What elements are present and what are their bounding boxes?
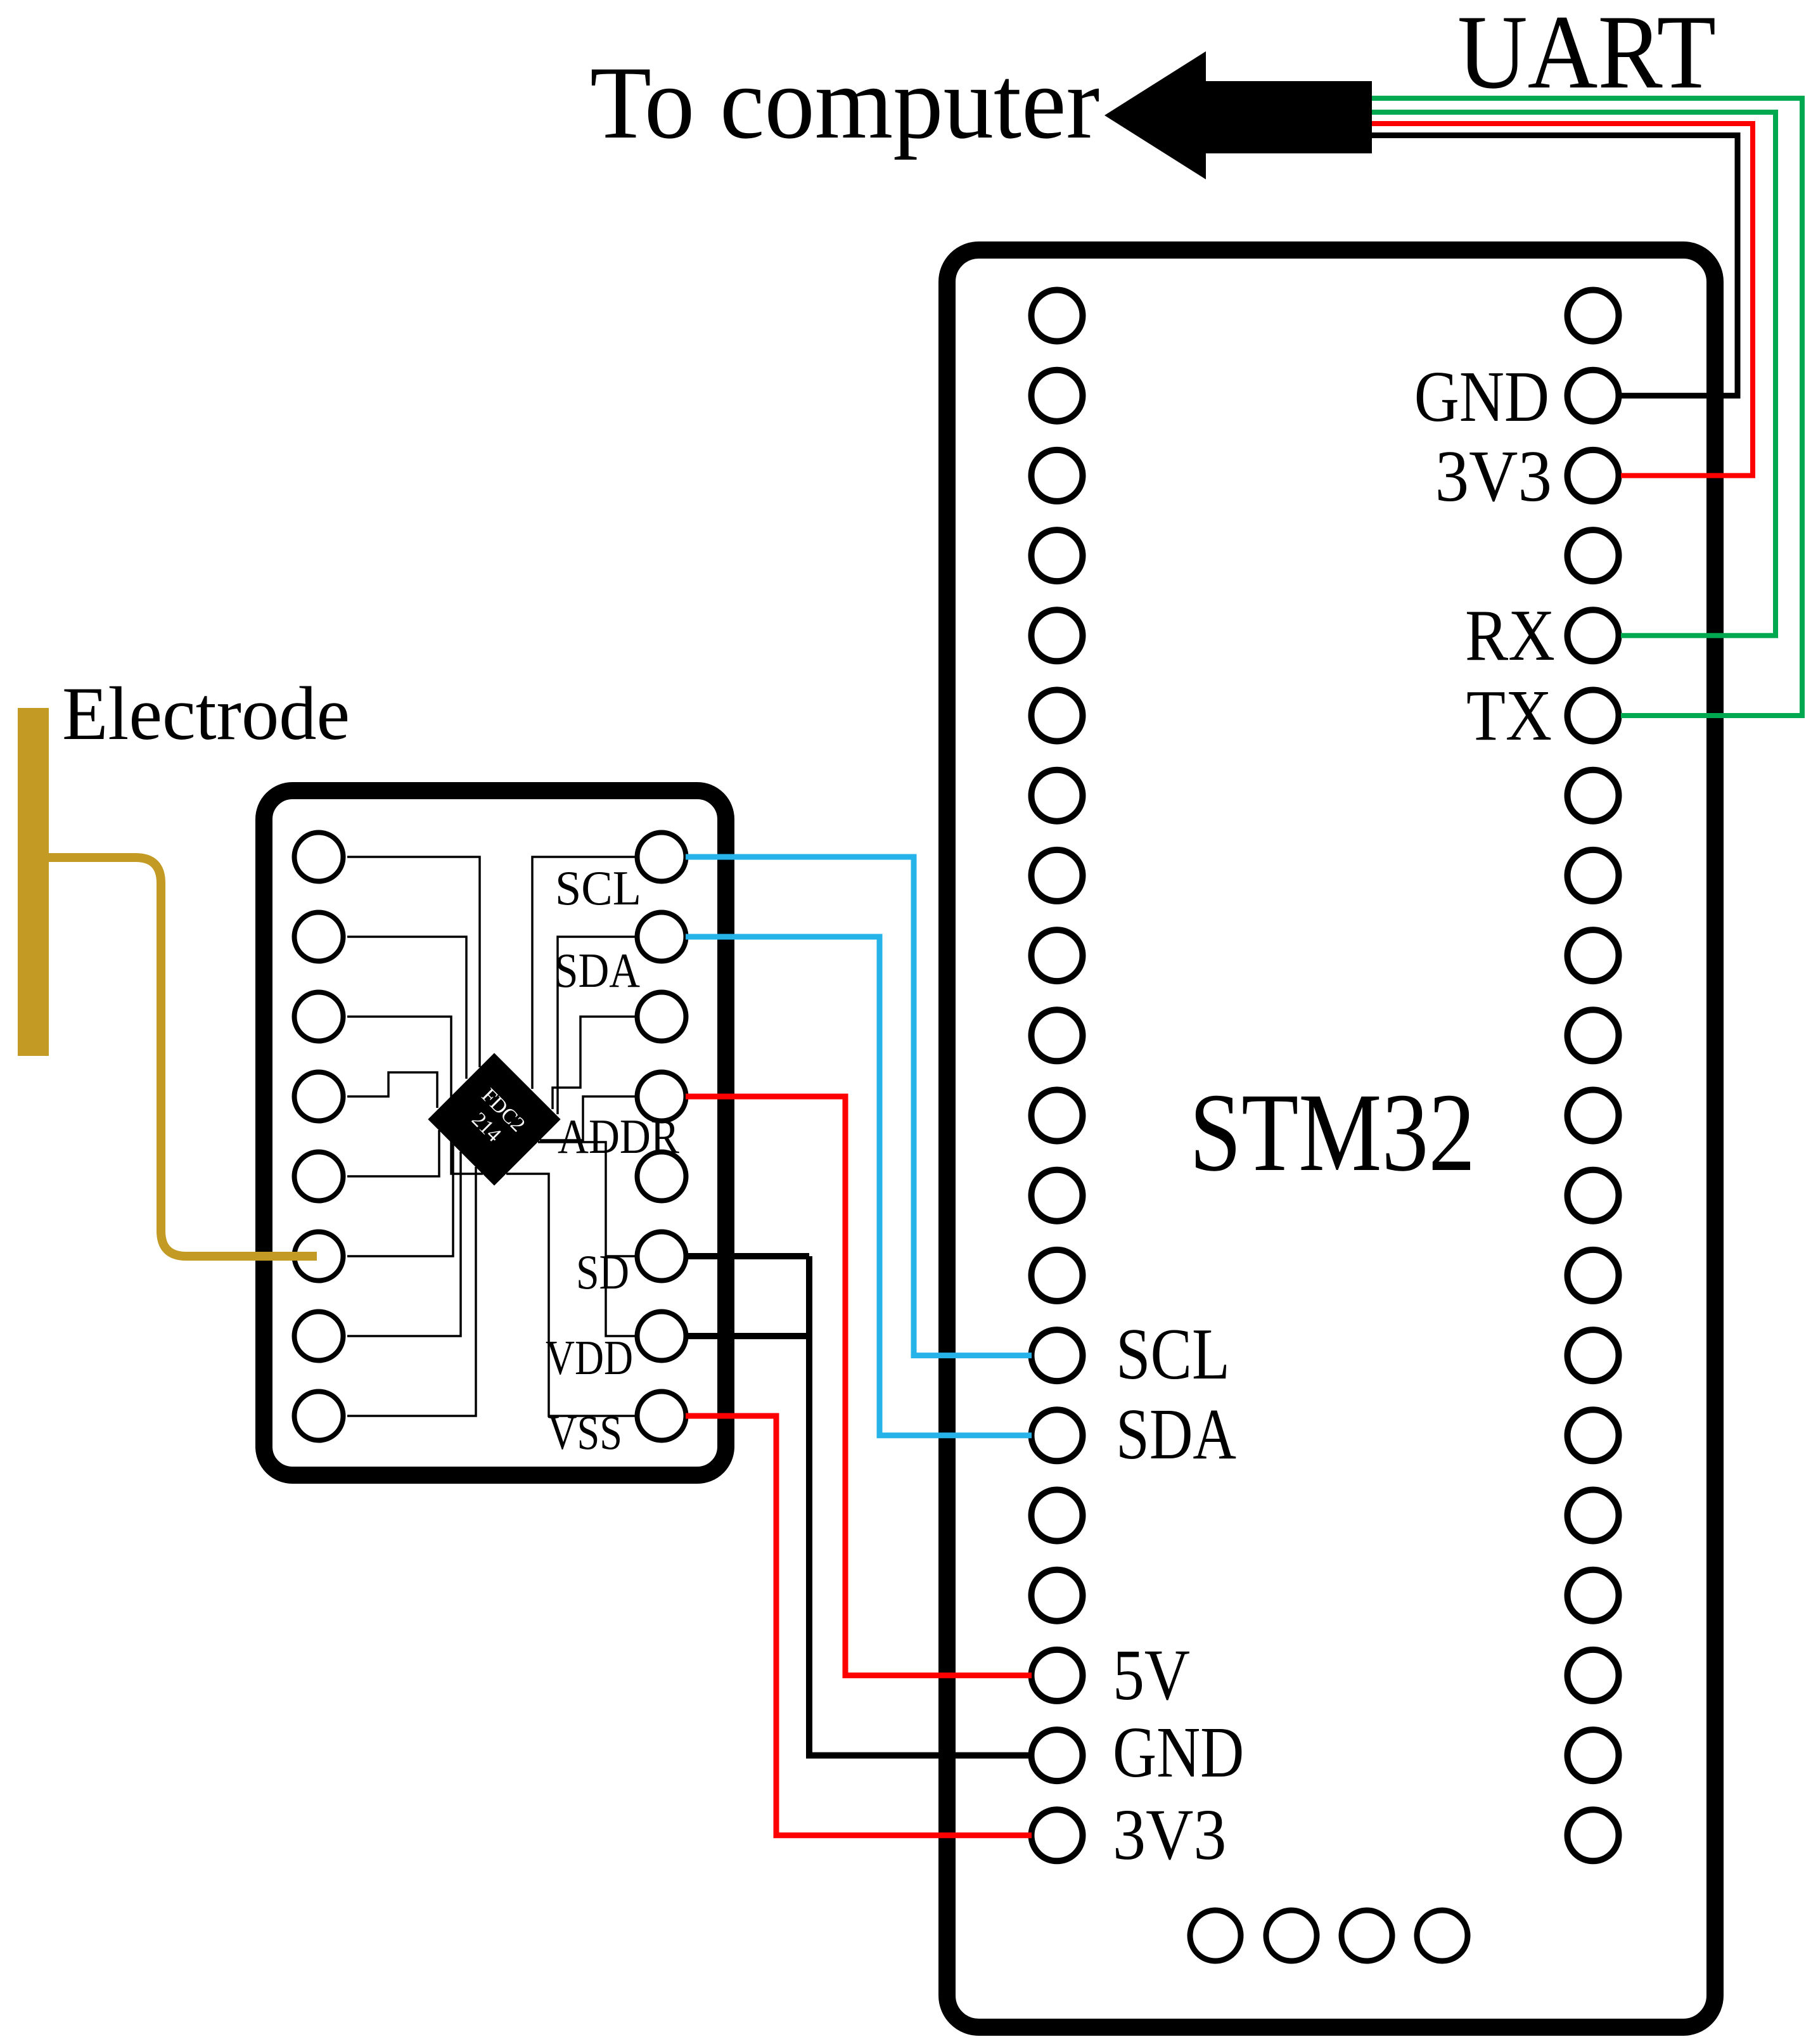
svg-text:To computer: To computer bbox=[590, 45, 1099, 160]
svg-text:SDA: SDA bbox=[1116, 1394, 1236, 1475]
STM32 bottom programming header pins bbox=[1190, 1910, 1468, 1961]
trace R4 ADDR bbox=[540, 1096, 635, 1140]
trace L8 bbox=[347, 1167, 476, 1416]
svg-text:GND: GND bbox=[1113, 1712, 1244, 1792]
trace L7 bbox=[347, 1152, 461, 1336]
svg-text:SCL: SCL bbox=[555, 862, 641, 916]
svg-text:3V3: 3V3 bbox=[1435, 437, 1552, 517]
svg-text:UART: UART bbox=[1457, 0, 1716, 110]
wire electrode gold bbox=[49, 858, 317, 1256]
trace R3 bbox=[553, 1017, 635, 1109]
trace R7 VDD bbox=[538, 1142, 635, 1336]
trace L4 bbox=[347, 1072, 437, 1108]
wire GND black (UART) bbox=[1372, 136, 1738, 396]
trace R8 VSS bbox=[506, 1174, 635, 1416]
svg-text:TX: TX bbox=[1466, 675, 1552, 755]
arrow to computer bbox=[1104, 51, 1372, 179]
FDC pcb traces left bbox=[347, 857, 635, 1416]
wire RX green (UART) bbox=[1372, 112, 1776, 636]
STM32 left header pins bbox=[1032, 290, 1083, 1861]
FDC2214 chip body bbox=[428, 1053, 560, 1185]
wire ADDR to 5V red bbox=[686, 1096, 1032, 1675]
trace L6 bbox=[347, 1144, 453, 1256]
FDC2214 board U1 outline bbox=[264, 791, 726, 1475]
wire SDA blue bbox=[686, 937, 1032, 1436]
svg-text:SCL: SCL bbox=[1116, 1314, 1230, 1395]
svg-text:STM32: STM32 bbox=[1189, 1071, 1475, 1195]
svg-text:5V: 5V bbox=[1113, 1635, 1190, 1716]
svg-text:Electrode: Electrode bbox=[62, 671, 350, 755]
trace R2 SDA bbox=[558, 937, 635, 1114]
wire VSS to 3V3 red bbox=[686, 1416, 1032, 1835]
trace L1 bbox=[347, 857, 480, 1067]
STM32 right header pins bbox=[1568, 290, 1619, 1861]
FDC board left pins bbox=[295, 833, 343, 1441]
svg-text:SD: SD bbox=[576, 1245, 629, 1299]
electrode pad bbox=[18, 708, 49, 1056]
wire 3V3 red (UART) bbox=[1372, 124, 1753, 475]
wire SD/VDD to GND black bbox=[809, 1256, 1032, 1756]
wire VDD black bbox=[686, 1333, 809, 1339]
STM32 board U2 outline bbox=[947, 250, 1715, 2028]
trace R1 SCL bbox=[532, 857, 635, 1089]
trace L3 bbox=[347, 1017, 483, 1174]
svg-text:VSS: VSS bbox=[547, 1406, 622, 1460]
trace L2 bbox=[347, 937, 466, 1079]
FDC board right pins bbox=[637, 833, 686, 1441]
svg-text:GND: GND bbox=[1414, 357, 1549, 437]
svg-text:ADDR: ADDR bbox=[558, 1109, 680, 1164]
svg-text:SDA: SDA bbox=[554, 943, 640, 998]
svg-text:3V3: 3V3 bbox=[1113, 1794, 1226, 1875]
svg-text:VDD: VDD bbox=[546, 1331, 633, 1385]
wire SD black bbox=[686, 1253, 809, 1259]
trace L5 bbox=[347, 1130, 439, 1176]
wire TX green (UART) bbox=[1372, 98, 1802, 716]
trace R6 SD bbox=[606, 1255, 635, 1257]
svg-text:RX: RX bbox=[1465, 595, 1555, 676]
wire SCL blue bbox=[686, 857, 1032, 1356]
